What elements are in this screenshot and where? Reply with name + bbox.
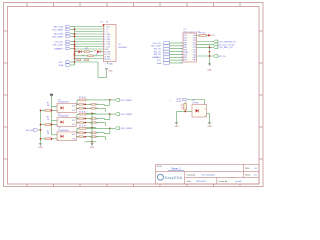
svg-text:47: 47	[77, 137, 79, 139]
svg-text:D?: D?	[94, 50, 96, 52]
svg-text:7: 7	[105, 63, 106, 65]
svg-text:16: 16	[106, 22, 108, 24]
svg-text:Sheet:: Sheet:	[245, 173, 251, 176]
svg-text:47: 47	[89, 108, 91, 110]
svg-text:IN2_USB: IN2_USB	[54, 33, 64, 35]
svg-text:47: 47	[89, 133, 91, 135]
svg-text:47: 47	[77, 133, 79, 135]
svg-text:3.3V_SNR1: 3.3V_SNR1	[120, 100, 132, 102]
svg-text:OUT: OUT	[72, 110, 76, 112]
svg-text:CH_CLKP: CH_CLKP	[53, 44, 64, 46]
svg-text:GND: GND	[90, 147, 95, 149]
svg-text:REV:: REV:	[245, 168, 250, 170]
svg-text:IN1_USBP: IN1_USBP	[52, 29, 63, 31]
svg-text:FODM3053R: FODM3053R	[58, 102, 69, 104]
svg-text:2019-06-22: 2019-06-22	[196, 181, 207, 183]
svg-text:OUT: OUT	[72, 124, 76, 126]
svg-text:1: 1	[181, 43, 182, 45]
svg-text:SIG_IN: SIG_IN	[26, 130, 34, 132]
svg-text:INT_16: INT_16	[218, 56, 226, 58]
svg-text:IN1_5V: IN1_5V	[154, 49, 162, 51]
svg-text:47: 47	[89, 104, 91, 106]
svg-text:Sheet_1: Sheet_1	[171, 167, 181, 171]
svg-text:SDA: SDA	[59, 64, 64, 67]
svg-text:SDA: SDA	[157, 62, 162, 65]
svg-text:GND: GND	[109, 71, 114, 73]
svg-text:3.3V_SNR3: 3.3V_SNR3	[120, 128, 132, 130]
svg-text:PB5: PB5	[184, 59, 187, 61]
svg-text:CH_CLK: CH_CLK	[54, 41, 63, 43]
svg-text:47: 47	[89, 118, 91, 120]
svg-text:IN2_5V: IN2_5V	[154, 51, 162, 53]
svg-text:+3.3V: +3.3V	[176, 101, 182, 103]
svg-text:EasyEDA: EasyEDA	[165, 175, 183, 180]
svg-text:FODM3053R: FODM3053R	[58, 116, 69, 118]
svg-text:GND: GND	[109, 63, 114, 65]
svg-text:Date:: Date:	[187, 180, 192, 183]
svg-text:CH_CLK: CH_CLK	[152, 43, 161, 45]
svg-text:1.5V_SMOKE_5V: 1.5V_SMOKE_5V	[218, 41, 236, 43]
svg-text:3: 3	[181, 48, 182, 50]
svg-text:OUT: OUT	[72, 138, 76, 140]
svg-text:2: 2	[58, 111, 59, 113]
svg-text:47: 47	[77, 104, 79, 106]
svg-text:IN1_USB: IN1_USB	[54, 26, 64, 28]
svg-text:Drawn By:: Drawn By:	[219, 181, 229, 183]
svg-text:TITLE:: TITLE:	[157, 166, 163, 168]
svg-text:1: 1	[58, 119, 59, 121]
svg-text:47: 47	[89, 122, 91, 124]
svg-text:47: 47	[77, 108, 79, 110]
svg-text:47: 47	[77, 118, 79, 120]
svg-text:pa.dvP: pa.dvP	[236, 181, 243, 183]
svg-text:CH9350L: CH9350L	[118, 47, 128, 49]
svg-text:ENABLE: ENABLE	[152, 56, 161, 59]
svg-text:(Macro pack a smg): (Macro pack a smg)	[184, 31, 201, 34]
svg-text:GND: GND	[38, 147, 43, 149]
svg-text:8: 8	[181, 63, 182, 65]
svg-text:GND: GND	[207, 126, 212, 128]
svg-text:5: 5	[181, 54, 182, 56]
svg-text:PB7: PB7	[193, 59, 196, 61]
svg-text:Company:: Company:	[187, 174, 197, 176]
svg-text:1: 1	[58, 105, 59, 107]
svg-text:2: 2	[181, 46, 182, 48]
svg-text:2: 2	[58, 125, 59, 127]
svg-text:47: 47	[77, 122, 79, 124]
svg-text:7: 7	[181, 60, 182, 62]
svg-text:471: 471	[85, 48, 88, 50]
svg-text:1: 1	[58, 134, 59, 136]
svg-text:Your Company: Your Company	[202, 174, 215, 176]
svg-text:IN2_USBP: IN2_USBP	[52, 36, 63, 38]
svg-text:I2C_SCL_5V_M: I2C_SCL_5V_M	[218, 44, 234, 46]
svg-text:2.5V_ADC_5V: 2.5V_ADC_5V	[218, 46, 233, 49]
svg-text:R? 4.7K: R? 4.7K	[79, 126, 87, 128]
svg-text:R232: R232	[107, 59, 111, 61]
svg-text:2: 2	[58, 139, 59, 141]
svg-text:R? 4.7K: R? 4.7K	[79, 97, 87, 99]
svg-text:FODM3053R: FODM3053R	[58, 130, 69, 132]
svg-text:3.3V_SNR2: 3.3V_SNR2	[120, 114, 132, 116]
svg-text:TLP785: TLP785	[192, 102, 199, 104]
svg-text:ENABLE: ENABLE	[54, 47, 63, 50]
svg-text:GND: GND	[207, 69, 212, 71]
svg-text:GND: GND	[174, 126, 179, 128]
svg-text:IN3_5V: IN3_5V	[154, 54, 162, 56]
svg-text:47: 47	[89, 137, 91, 139]
svg-text:4: 4	[181, 51, 182, 53]
svg-text:CH_CLKP: CH_CLKP	[151, 46, 162, 48]
svg-text:6: 6	[181, 57, 182, 59]
svg-text:R? 4.7K: R? 4.7K	[79, 111, 87, 113]
